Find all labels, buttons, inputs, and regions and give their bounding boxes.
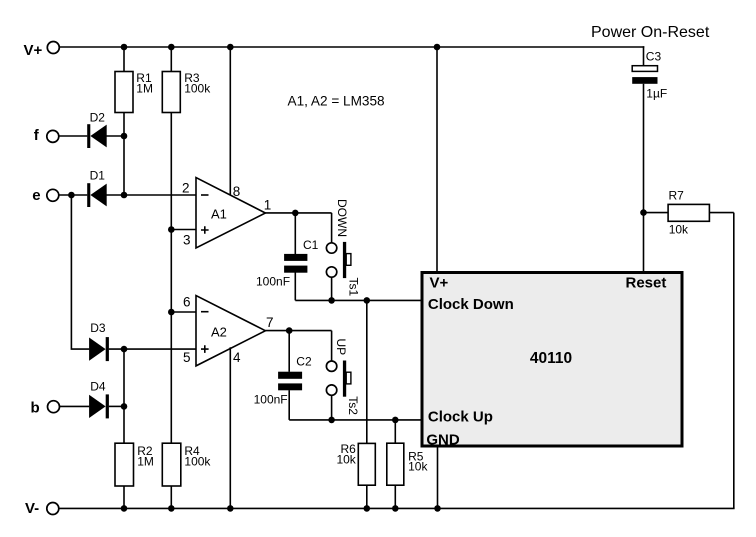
svg-text:V-: V- [25,500,39,517]
wire Clock Down net [295,299,422,301]
node rail-R4 [168,505,175,512]
svg-text:1M: 1M [137,454,154,468]
svg-text:A1: A1 [211,207,227,222]
svg-text:10k: 10k [336,452,356,466]
wire R7 to right column [709,212,733,214]
svg-text:100nF: 100nF [256,275,290,289]
wire Ts2 bottom [331,395,333,420]
svg-text:V+: V+ [430,275,449,292]
svg-text:C3: C3 [646,50,662,64]
node rail-GND [434,505,441,512]
svg-text:8: 8 [233,184,241,199]
resistor R2 [115,443,134,486]
wire to Ts1 top [331,213,333,243]
wire pin3 [171,229,196,231]
svg-text:Clock Up: Clock Up [428,409,493,426]
node rail-R2 [121,505,128,512]
wire R3-R4 divider column [170,112,172,443]
wire to Ts2 top [331,331,333,362]
IC U1 40110 [422,273,682,447]
svg-text:A1, A2 = LM358: A1, A2 = LM358 [288,93,385,108]
svg-text:D2: D2 [90,110,106,124]
resistor R7 [668,204,709,221]
terminal b [48,401,60,413]
node rail-ICV+ [434,44,441,51]
svg-text:7: 7 [266,315,274,330]
wire D2 to node [107,135,125,137]
node e-branch [68,192,75,199]
diode D3 [89,338,106,361]
wire pin8 drop to A1 [229,47,231,196]
wire e branch down to D3 [71,195,89,349]
svg-text:UP: UP [334,339,348,356]
capacitor C3 [632,66,657,72]
op-amp A1 [196,178,265,249]
wire f to D2 [59,135,87,137]
wire R3 top drop [170,47,172,73]
wire IC GND to V- rail [437,446,439,508]
wire V+ top rail [60,46,645,48]
wire R6 column [366,300,368,443]
resistor R5 [387,443,404,485]
node f-R1 [121,133,128,140]
diode D2 [87,124,90,148]
wire Clock Up net [289,419,422,421]
node R6-clockdown [364,297,371,304]
wire D3 node down to D4 node [123,349,125,406]
node divider-pin3 [168,226,175,233]
svg-text:40110: 40110 [530,350,572,367]
wire b to D4 [60,405,89,407]
wire R4 to V- rail [170,486,172,508]
wire R1 bottom column [123,112,125,195]
svg-text:V+: V+ [24,42,43,59]
svg-text:R7: R7 [669,189,685,203]
svg-text:D4: D4 [90,380,106,394]
node A1 out [292,210,299,217]
wire C3 to Reset pin [643,84,645,273]
terminal e [47,189,59,201]
wire D4 to node [109,405,124,407]
wire D3 to A2 pin5 [109,348,196,350]
resistor R4 [162,443,181,486]
pushbutton Ts1 [326,243,336,253]
node rail-pin4 [227,505,234,512]
svg-text:100k: 100k [184,81,211,95]
resistor R6 [358,443,375,485]
node rail-R1 [121,44,128,51]
node D4-R2 [121,403,128,410]
svg-text:e: e [32,187,40,204]
capacitor C2 [288,331,290,372]
svg-text:4: 4 [233,350,241,365]
resistor R1 [115,72,133,113]
svg-text:1µF: 1µF [646,87,667,101]
svg-text:Power On-Reset: Power On-Reset [591,24,710,41]
wire R5 drop [394,420,396,444]
node R5-clockup [392,417,399,424]
wire pin6 [171,311,196,313]
svg-text:2: 2 [182,181,190,196]
wire D1 to A1 pin2 [107,194,197,196]
diode D1 [87,183,90,207]
wire C3 drop from rail corner [643,46,645,66]
svg-text:C2: C2 [296,354,312,368]
svg-text:b: b [31,400,40,417]
op-amp A2 [196,296,265,366]
node rail-R6 [364,505,371,512]
wire IC V+ drop [436,47,438,273]
svg-text:1M: 1M [136,81,153,95]
node D3-D4 [121,346,128,353]
node reset-R7 [640,209,647,216]
svg-text:100k: 100k [184,454,211,468]
diode D4 [89,395,106,418]
svg-text:10k: 10k [408,460,428,474]
svg-text:Ts2: Ts2 [346,396,360,415]
wire A1 output [265,212,331,214]
wire R6 bottom [366,485,368,508]
wire reset node to R7 [644,212,669,214]
svg-text:C1: C1 [303,238,319,252]
node Ts2-clockup [328,417,335,424]
svg-text:Clock Down: Clock Down [428,296,514,313]
node e-R1-pin2 [121,192,128,199]
svg-text:D1: D1 [90,169,106,183]
node rail-pin8 [227,44,234,51]
node rail-R3 [168,44,175,51]
svg-text:100nF: 100nF [254,392,288,406]
node Ts1-clockdown [328,297,335,304]
node A2 out [286,327,293,334]
svg-text:Reset: Reset [626,275,667,292]
capacitor C1 [294,213,296,254]
svg-text:Ts1: Ts1 [347,278,361,297]
wire e to D1 [59,194,87,196]
svg-text:10k: 10k [669,223,689,237]
svg-text:DOWN: DOWN [335,199,349,237]
wire R5 bottom [394,485,396,508]
wire pin4 to V- rail [229,347,231,508]
pushbutton Ts2 [326,361,336,371]
svg-text:3: 3 [183,233,191,248]
wire V- bottom rail [59,507,734,509]
terminal V+ [47,42,59,54]
wire R1 top drop [123,47,125,73]
node rail-R5 [392,505,399,512]
svg-text:A2: A2 [211,325,227,340]
terminal V- [47,503,59,515]
wire R2 to V- rail [123,486,125,508]
node divider-pin6 [168,309,175,316]
svg-text:D3: D3 [90,321,106,335]
wire right pulldown column [733,213,735,509]
svg-text:GND: GND [426,432,460,449]
svg-text:6: 6 [183,295,191,310]
wire Ts1 bottom [331,277,333,301]
terminal f [47,130,59,142]
resistor R3 [162,72,180,113]
svg-text:5: 5 [183,350,191,365]
svg-text:1: 1 [264,197,272,212]
wire A2 output [265,330,331,332]
wire node down to R2 [123,406,125,443]
